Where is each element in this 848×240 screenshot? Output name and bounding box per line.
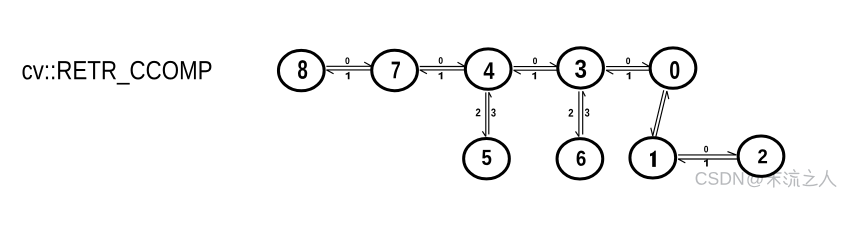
- edge 0-3 backward: [606, 70, 650, 74]
- node 6: [557, 139, 603, 179]
- edge 3-0 forward: [606, 62, 650, 66]
- label 1 on edge 7-8: [346, 72, 350, 79]
- edge 5-4 up: [489, 92, 492, 134]
- label 2 on edge 3-6: [569, 109, 574, 117]
- label 3 on edge 5-4: [491, 109, 496, 117]
- node 8: [278, 50, 324, 90]
- node 3: [558, 48, 604, 88]
- edge 2-1 backward: [678, 159, 738, 163]
- edge 3-6 down: [576, 91, 579, 136]
- edge 0-1 down: [651, 90, 664, 136]
- node 0: [650, 48, 696, 88]
- node 4: [465, 49, 511, 89]
- label 0 on edge 3-0: [626, 57, 630, 64]
- label 0 on edge 8-7: [345, 57, 349, 64]
- label 0 on edge 7-4: [439, 57, 443, 64]
- watermark CJK glyphs: [767, 170, 836, 187]
- node 5: [464, 139, 510, 179]
- edge 6-3 up: [583, 91, 586, 134]
- label 1 on edge 4-7: [439, 72, 443, 79]
- edge 4-7 backward: [420, 70, 465, 74]
- edge 7-8 backward: [326, 70, 371, 74]
- node 1: [630, 138, 676, 178]
- label 3 on edge 6-3: [585, 109, 590, 117]
- title cv::RETR_CCOMP: [22, 61, 211, 85]
- edge 3-4 backward: [514, 70, 558, 74]
- edge 1-2 forward: [678, 152, 736, 155]
- node 7: [372, 50, 418, 90]
- edge 7-4 forward: [420, 62, 465, 66]
- edge 1-0 up: [656, 91, 669, 137]
- edge 4-3 forward: [514, 62, 558, 66]
- edge 8-7 forward: [326, 62, 371, 66]
- watermark CSDN text: [696, 172, 763, 188]
- label 1 on edge 3-4: [532, 72, 536, 79]
- node 2: [738, 136, 784, 176]
- label 1 on edge 2-1: [704, 159, 708, 166]
- label 2 on edge 4-5: [476, 109, 481, 117]
- label 0 on edge 4-3: [533, 57, 537, 64]
- label 0 on edge 1-2: [704, 146, 708, 153]
- edge 4-5 down: [482, 92, 485, 136]
- label 1 on edge 0-3: [627, 72, 631, 79]
